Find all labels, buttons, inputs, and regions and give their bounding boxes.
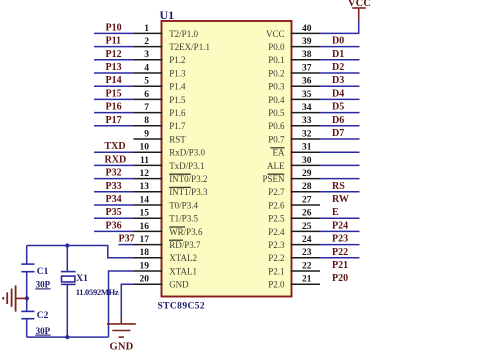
svg-text:WR/P3.6: WR/P3.6 xyxy=(169,227,203,237)
svg-text:INT0/P3.2: INT0/P3.2 xyxy=(169,174,207,184)
pin name ALE xyxy=(267,161,285,171)
svg-text:RW: RW xyxy=(332,194,349,205)
wire pin40 to VCC xyxy=(320,20,359,34)
wire net P32 xyxy=(94,168,134,179)
pin 38 (P0.1) stub + number xyxy=(291,50,321,60)
pin name P2.3 xyxy=(268,240,285,250)
pin name XTAL1 xyxy=(169,266,197,276)
pin name P2.2 xyxy=(268,253,284,263)
pin name XTAL2 xyxy=(169,253,197,263)
pin 36 (P0.3) stub + number xyxy=(291,77,321,87)
pin 35 (P0.4) stub + number xyxy=(291,90,321,100)
svg-text:P0.2: P0.2 xyxy=(268,68,284,78)
wire net P15 xyxy=(94,88,134,99)
pin name P0.1 xyxy=(268,55,284,65)
svg-text:P1.3: P1.3 xyxy=(169,68,186,78)
svg-text:C2: C2 xyxy=(37,311,49,321)
svg-text:D5: D5 xyxy=(332,102,344,113)
svg-text:30: 30 xyxy=(302,156,312,166)
svg-text:P1.2: P1.2 xyxy=(169,55,185,65)
svg-text:GND: GND xyxy=(110,342,134,352)
pin 5 (P1.4) stub + number xyxy=(134,77,163,87)
svg-text:P15: P15 xyxy=(106,88,122,99)
svg-text:28: 28 xyxy=(302,182,312,192)
ground GND symbol xyxy=(107,318,136,338)
pin name RST xyxy=(169,134,186,144)
pin 3 (P1.2) stub + number xyxy=(134,50,163,60)
svg-text:23: 23 xyxy=(302,248,312,258)
wire net row pin 37 xyxy=(320,72,360,74)
svg-text:T0/P3.4: T0/P3.4 xyxy=(169,200,198,210)
pin 2 (T2EX/P1.1) stub + number xyxy=(134,37,163,47)
pin name INT0/P3.2 xyxy=(169,174,207,184)
svg-text:P17: P17 xyxy=(106,115,122,126)
pin name P2.6 xyxy=(268,200,285,210)
svg-text:15: 15 xyxy=(140,209,150,219)
svg-text:P1.5: P1.5 xyxy=(169,95,186,105)
svg-text:P2.0: P2.0 xyxy=(268,280,285,290)
svg-text:P24: P24 xyxy=(332,220,348,231)
wire net TXD xyxy=(94,141,134,152)
wire left branch C1/C2 xyxy=(26,246,28,338)
svg-text:C1: C1 xyxy=(37,267,49,277)
svg-text:P0.6: P0.6 xyxy=(268,121,285,131)
svg-text:35: 35 xyxy=(302,90,312,100)
svg-text:RxD/P3.0: RxD/P3.0 xyxy=(169,148,205,158)
pin 34 (P0.5) stub + number xyxy=(291,103,321,113)
pin 29 (PSEN) stub + number xyxy=(291,169,321,179)
svg-text:2: 2 xyxy=(144,37,149,47)
svg-text:P33: P33 xyxy=(106,181,122,192)
wire net row pin 25 xyxy=(320,230,360,232)
svg-text:XTAL2: XTAL2 xyxy=(169,253,197,263)
pin name P0.5 xyxy=(268,108,285,118)
svg-text:D3: D3 xyxy=(332,75,344,86)
pin name EA xyxy=(270,148,285,158)
wire net row pin 35 xyxy=(320,98,360,100)
pin name T1/P3.5 xyxy=(169,214,198,224)
pin name P0.2 xyxy=(268,68,284,78)
svg-text:31: 31 xyxy=(302,143,312,153)
pin name RxD/P3.0 xyxy=(169,148,205,158)
pin 9 (RST) stub + number xyxy=(134,129,163,139)
svg-text:P0.3: P0.3 xyxy=(268,82,285,92)
pin 12 (INT0/P3.2) stub + number xyxy=(134,169,163,179)
wire net row pin 38 xyxy=(320,59,360,61)
pin name P0.7 xyxy=(268,134,285,144)
pin 14 (T0/P3.4) stub + number xyxy=(134,195,163,205)
svg-text:D2: D2 xyxy=(332,62,344,73)
wire net P16 xyxy=(94,102,134,113)
svg-text:24: 24 xyxy=(302,235,312,245)
junction earth tap xyxy=(25,296,29,300)
power symbol VCC xyxy=(348,0,371,20)
svg-text:34: 34 xyxy=(302,103,312,113)
svg-text:37: 37 xyxy=(302,63,312,73)
wire XTAL2 net top rail xyxy=(27,246,134,258)
svg-text:30P: 30P xyxy=(36,326,51,336)
svg-text:P1.7: P1.7 xyxy=(169,121,186,131)
wire net P11 xyxy=(94,36,134,47)
svg-text:RS: RS xyxy=(332,181,345,192)
pin 26 (P2.5) stub + number xyxy=(291,209,321,219)
svg-text:D0: D0 xyxy=(332,36,344,47)
svg-text:P0.1: P0.1 xyxy=(268,55,284,65)
pin name T2EX/P1.1 xyxy=(169,42,210,52)
svg-text:16: 16 xyxy=(140,222,150,232)
wire net row pin 24 xyxy=(320,244,360,246)
svg-text:P0.7: P0.7 xyxy=(268,134,285,144)
svg-text:39: 39 xyxy=(302,37,312,47)
svg-text:D1: D1 xyxy=(332,49,344,60)
svg-text:VCC: VCC xyxy=(348,0,371,9)
svg-text:P32: P32 xyxy=(106,168,122,179)
svg-text:P2.5: P2.5 xyxy=(268,214,285,224)
svg-text:26: 26 xyxy=(302,209,312,219)
pin 30 (ALE) stub + number xyxy=(291,156,321,166)
svg-text:4: 4 xyxy=(144,63,149,73)
svg-text:9: 9 xyxy=(144,129,149,139)
pin name P1.3 xyxy=(169,68,186,78)
pin name P2.4 xyxy=(268,227,285,237)
pin 37 (P0.2) stub + number xyxy=(291,63,321,73)
pin 24 (P2.3) stub + number xyxy=(291,235,321,245)
svg-text:P2.2: P2.2 xyxy=(268,253,284,263)
svg-text:VCC: VCC xyxy=(266,29,285,39)
capacitor C1 xyxy=(21,264,34,272)
pin name P1.2 xyxy=(169,55,185,65)
pin name INT1/P3.3 xyxy=(169,187,208,197)
pin name WR/P3.6 xyxy=(169,227,203,237)
wire net row pin 30 xyxy=(320,164,360,166)
svg-text:10: 10 xyxy=(140,143,150,153)
svg-text:P0.5: P0.5 xyxy=(268,108,285,118)
svg-text:25: 25 xyxy=(302,222,312,232)
pin name RD/P3.7 xyxy=(169,240,201,250)
svg-text:P1.4: P1.4 xyxy=(169,82,186,92)
svg-text:P0.0: P0.0 xyxy=(268,42,285,52)
svg-text:P2.3: P2.3 xyxy=(268,240,285,250)
pin name PSEN xyxy=(262,174,285,184)
svg-text:22: 22 xyxy=(302,261,312,271)
pin 39 (P0.0) stub + number xyxy=(291,37,321,47)
pin name T0/P3.4 xyxy=(169,200,198,210)
pin 6 (P1.5) stub + number xyxy=(134,90,163,100)
svg-text:P21: P21 xyxy=(332,260,348,271)
svg-text:38: 38 xyxy=(302,50,312,60)
pin 4 (P1.3) stub + number xyxy=(134,63,163,73)
pin name P2.0 xyxy=(268,280,285,290)
svg-text:11.0592MHz: 11.0592MHz xyxy=(76,287,119,297)
pin 17 (RD/P3.7) stub + number xyxy=(134,235,163,245)
capacitor C2 xyxy=(21,311,34,318)
svg-text:RD/P3.7: RD/P3.7 xyxy=(169,240,201,250)
wire net P17 xyxy=(94,115,134,126)
svg-text:8: 8 xyxy=(144,116,149,126)
pin 32 (P0.7) stub + number xyxy=(291,129,321,139)
svg-text:X1: X1 xyxy=(76,274,88,284)
pin name P2.5 xyxy=(268,214,285,224)
svg-text:P11: P11 xyxy=(106,36,122,47)
svg-text:D7: D7 xyxy=(332,128,344,139)
svg-text:P2.4: P2.4 xyxy=(268,227,285,237)
svg-text:6: 6 xyxy=(144,90,149,100)
pin 33 (P0.6) stub + number xyxy=(291,116,321,126)
wire net row pin 26 xyxy=(320,217,360,219)
svg-text:P13: P13 xyxy=(106,62,122,73)
wire net P13 xyxy=(94,62,134,73)
wire net row pin 32 xyxy=(320,138,360,140)
svg-text:27: 27 xyxy=(302,195,312,205)
svg-text:P10: P10 xyxy=(106,22,122,33)
svg-text:INT1/P3.3: INT1/P3.3 xyxy=(169,187,208,197)
wire net P37 xyxy=(119,234,135,245)
pin 28 (P2.7) stub + number xyxy=(291,182,321,192)
wire net row pin 33 xyxy=(320,125,360,127)
svg-text:P2.7: P2.7 xyxy=(268,187,285,197)
wire net row pin 36 xyxy=(320,85,360,87)
svg-text:P12: P12 xyxy=(106,49,122,60)
pin 7 (P1.6) stub + number xyxy=(134,103,163,113)
svg-text:EA: EA xyxy=(273,148,285,158)
pin 1 (T2/P1.0) stub + number xyxy=(134,24,163,34)
pin name P1.5 xyxy=(169,95,186,105)
wire net P36 xyxy=(94,220,134,231)
pin 19 (XTAL1) stub + number xyxy=(134,261,163,271)
pin name GND xyxy=(169,280,189,290)
svg-text:U1: U1 xyxy=(160,8,175,22)
svg-text:P23: P23 xyxy=(332,234,348,245)
svg-text:29: 29 xyxy=(302,169,312,179)
svg-text:40: 40 xyxy=(302,24,312,34)
junction crystal bottom xyxy=(65,335,69,339)
svg-text:P16: P16 xyxy=(106,102,122,113)
svg-text:P14: P14 xyxy=(106,75,122,86)
pin 22 (P2.1) stub + number xyxy=(291,261,321,271)
wire net P35 xyxy=(94,207,134,218)
pin 18 (XTAL2) stub + number xyxy=(134,248,163,258)
pin 11 (TxD/P3.1) stub + number xyxy=(134,156,163,166)
wire XTAL1 net xyxy=(109,271,134,337)
pin 20 (GND) stub + number xyxy=(134,275,163,285)
svg-text:21: 21 xyxy=(302,275,312,285)
svg-text:P1.6: P1.6 xyxy=(169,108,186,118)
pin name TxD/P3.1 xyxy=(169,161,204,171)
svg-text:XTAL1: XTAL1 xyxy=(169,266,197,276)
pin 23 (P2.2) stub + number xyxy=(291,248,321,258)
pin name P0.6 xyxy=(268,121,285,131)
svg-text:P36: P36 xyxy=(106,220,122,231)
svg-text:E: E xyxy=(332,207,339,218)
wire net P10 xyxy=(94,22,134,33)
svg-text:17: 17 xyxy=(140,235,150,245)
pin 21 (P2.0) stub + number xyxy=(291,275,321,285)
pin name P0.0 xyxy=(268,42,285,52)
wire pin20 to GND xyxy=(121,284,133,317)
wire net P34 xyxy=(94,194,134,205)
pin name VCC xyxy=(266,29,285,39)
svg-text:P0.4: P0.4 xyxy=(268,95,285,105)
svg-text:D4: D4 xyxy=(332,88,344,99)
wire net P12 xyxy=(94,49,134,60)
svg-text:P2.6: P2.6 xyxy=(268,200,285,210)
svg-text:TxD/P3.1: TxD/P3.1 xyxy=(169,161,204,171)
svg-text:GND: GND xyxy=(169,280,189,290)
wire net P33 xyxy=(94,181,134,192)
svg-text:D6: D6 xyxy=(332,115,344,126)
svg-text:T2/P1.0: T2/P1.0 xyxy=(169,29,198,39)
svg-text:STC89C52: STC89C52 xyxy=(158,302,206,312)
svg-text:P34: P34 xyxy=(106,194,122,205)
svg-text:P20: P20 xyxy=(332,273,348,284)
wire bottom rail xyxy=(27,336,109,338)
wire net row pin 29 xyxy=(320,178,360,180)
svg-text:30P: 30P xyxy=(36,280,51,290)
pin name P2.7 xyxy=(268,187,285,197)
svg-text:20: 20 xyxy=(140,275,150,285)
pin name P1.6 xyxy=(169,108,186,118)
svg-text:13: 13 xyxy=(140,182,150,192)
pin name P0.3 xyxy=(268,82,285,92)
pin 31 (EA) stub + number xyxy=(291,143,321,153)
wire net RXD xyxy=(94,154,134,165)
pin 15 (T1/P3.5) stub + number xyxy=(134,209,163,219)
junction crystal top xyxy=(65,243,69,247)
mcu U1 STC89C52 body xyxy=(162,21,292,297)
svg-text:RST: RST xyxy=(169,134,186,144)
svg-text:T2EX/P1.1: T2EX/P1.1 xyxy=(169,42,210,52)
svg-text:36: 36 xyxy=(302,77,312,87)
svg-text:PSEN: PSEN xyxy=(262,174,285,184)
wire net row pin 28 xyxy=(320,191,360,193)
svg-text:P37: P37 xyxy=(119,234,135,245)
earth ground (left) xyxy=(3,286,26,312)
wire net row pin 23 xyxy=(320,257,360,259)
svg-text:ALE: ALE xyxy=(267,161,285,171)
svg-text:T1/P3.5: T1/P3.5 xyxy=(169,214,198,224)
pin name P1.7 xyxy=(169,121,186,131)
wire net row pin 39 xyxy=(320,46,360,48)
pin name P1.4 xyxy=(169,82,186,92)
pin 27 (P2.6) stub + number xyxy=(291,195,321,205)
crystal X1 xyxy=(61,246,76,338)
svg-text:1: 1 xyxy=(144,24,149,34)
svg-text:P2.1: P2.1 xyxy=(268,266,284,276)
svg-text:18: 18 xyxy=(140,248,150,258)
svg-text:11: 11 xyxy=(140,156,149,166)
svg-text:14: 14 xyxy=(140,195,150,205)
svg-text:RXD: RXD xyxy=(105,154,127,165)
svg-text:P22: P22 xyxy=(332,247,348,258)
svg-text:32: 32 xyxy=(302,129,312,139)
pin name T2/P1.0 xyxy=(169,29,198,39)
pin 10 (RxD/P3.0) stub + number xyxy=(134,143,163,153)
pin 40 (VCC) stub + number xyxy=(291,24,321,34)
pin name P2.1 xyxy=(268,266,284,276)
wire net row pin 34 xyxy=(320,112,360,114)
svg-text:12: 12 xyxy=(140,169,150,179)
wire net P14 xyxy=(94,75,134,86)
svg-text:P35: P35 xyxy=(106,207,122,218)
svg-text:19: 19 xyxy=(140,261,150,271)
svg-text:33: 33 xyxy=(302,116,312,126)
svg-text:7: 7 xyxy=(144,103,149,113)
wire net row pin 31 xyxy=(320,151,360,153)
svg-text:TXD: TXD xyxy=(105,141,126,152)
pin 13 (INT1/P3.3) stub + number xyxy=(134,182,163,192)
svg-text:5: 5 xyxy=(144,77,149,87)
svg-text:3: 3 xyxy=(144,50,149,60)
pin name P0.4 xyxy=(268,95,285,105)
pin 16 (WR/P3.6) stub + number xyxy=(134,222,163,232)
pin 25 (P2.4) stub + number xyxy=(291,222,321,232)
pin 8 (P1.7) stub + number xyxy=(134,116,163,126)
